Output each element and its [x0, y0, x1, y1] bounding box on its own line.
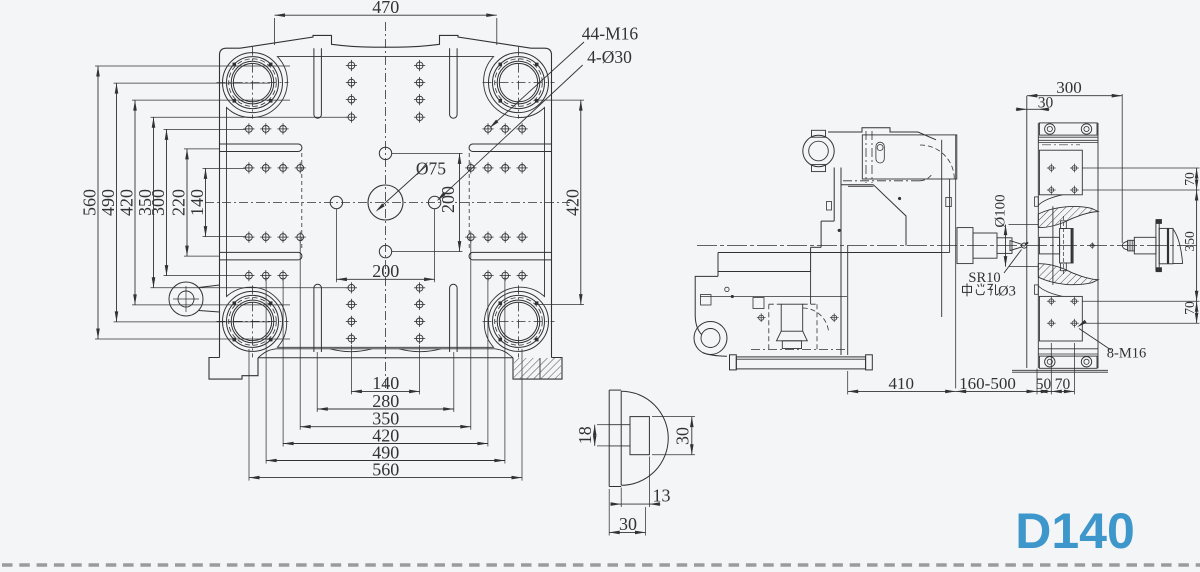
svg-text:8-M16: 8-M16	[1107, 346, 1146, 362]
svg-text:44-M16: 44-M16	[582, 24, 639, 44]
svg-text:D140: D140	[1015, 503, 1135, 559]
svg-text:560: 560	[372, 459, 399, 479]
svg-text:30: 30	[673, 427, 693, 445]
svg-text:160-500: 160-500	[959, 374, 1016, 393]
svg-text:13: 13	[653, 486, 671, 506]
svg-text:300: 300	[148, 189, 168, 216]
svg-text:4-Ø30: 4-Ø30	[587, 47, 632, 67]
svg-text:420: 420	[562, 189, 582, 216]
svg-text:SR10: SR10	[968, 270, 1000, 286]
svg-text:470: 470	[372, 0, 399, 17]
svg-text:70: 70	[1182, 172, 1197, 186]
svg-text:140: 140	[187, 189, 207, 216]
svg-text:50: 50	[1036, 376, 1052, 393]
svg-text:420: 420	[117, 189, 137, 216]
svg-text:Ø100: Ø100	[992, 194, 1008, 227]
svg-text:490: 490	[98, 189, 118, 216]
svg-text:70: 70	[1055, 376, 1071, 393]
svg-text:410: 410	[889, 374, 915, 393]
svg-text:200: 200	[372, 261, 399, 281]
svg-text:350: 350	[1182, 231, 1197, 252]
svg-text:300: 300	[1056, 78, 1082, 97]
svg-text:220: 220	[169, 189, 189, 216]
svg-text:Ø3: Ø3	[998, 284, 1016, 300]
svg-text:30: 30	[619, 514, 637, 534]
svg-text:18: 18	[575, 426, 595, 444]
svg-text:Ø75: Ø75	[416, 159, 446, 179]
svg-text:70: 70	[1182, 301, 1197, 315]
svg-text:30: 30	[1038, 94, 1054, 111]
svg-text:560: 560	[80, 189, 100, 216]
